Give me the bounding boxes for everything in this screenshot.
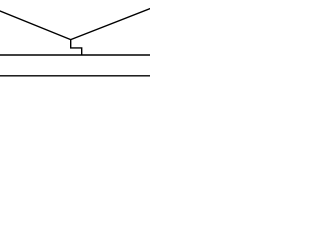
wire: left slope diagonal [0,11,71,40]
wire: step notch (vertical drop, horizontal shelf, vertical drop) [71,40,82,56]
wire: upper horizontal line [0,54,151,56]
wire: right slope diagonal [71,8,151,39]
wire: lower horizontal line [0,75,151,77]
